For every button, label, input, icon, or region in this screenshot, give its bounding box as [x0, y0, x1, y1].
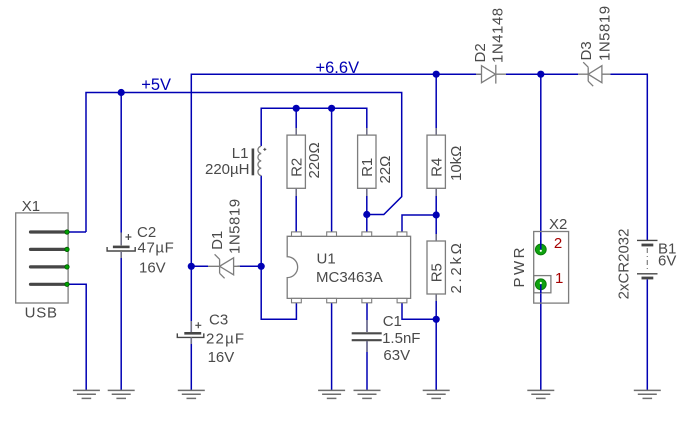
wire U1 pin3 bottom to C1 [366, 303, 368, 332]
pin 1 [535, 279, 546, 290]
op-amp U1 MC3463A [287, 232, 410, 303]
junction R1 bottom [363, 211, 370, 218]
svg-text:X1: X1 [22, 198, 40, 215]
svg-text:10kΩ: 10kΩ [448, 146, 465, 181]
ground (C2) [108, 390, 135, 398]
wire +5V rail from USB pin1 riser to corner at x=401.7 [86, 93, 402, 233]
battery B1 2xCR2032 [616, 229, 677, 300]
resistor R1 [358, 128, 394, 196]
junction D1 anode node [258, 263, 265, 270]
junction +5V/C2 [118, 89, 125, 96]
svg-text:2.2kΩ: 2.2kΩ [448, 240, 465, 293]
wire C1 to ground [366, 341, 368, 390]
wire L1/R2/R1 top rail [261, 108, 367, 232]
svg-text:1N4148: 1N4148 [490, 7, 507, 63]
wire +6.6V rail with left drop to D1 node [191, 74, 647, 266]
ground (R5) [423, 390, 450, 398]
resistor R5 [427, 234, 465, 301]
svg-text:PWR: PWR [511, 245, 528, 288]
svg-text:D3: D3 [578, 41, 595, 60]
diode D1 1N5819 [208, 198, 244, 278]
ground (U1 pin2) [318, 390, 345, 398]
wire D1 node left: C3 branch [190, 266, 192, 390]
inductor L1 [205, 145, 266, 178]
junction rail/R2 [293, 105, 300, 112]
svg-text:R4: R4 [428, 158, 445, 177]
wire USB pin1 to riser [67, 231, 86, 233]
svg-text:1N5819: 1N5819 [227, 198, 244, 254]
capacitor C1 [352, 313, 421, 364]
junction R5 bottom [433, 316, 440, 323]
ground (B1) [634, 390, 661, 398]
svg-text:C1: C1 [383, 313, 402, 330]
svg-text:220µH: 220µH [205, 161, 250, 178]
connector X1 USB [16, 198, 70, 322]
junction R4 bottom / R5 top [433, 211, 440, 218]
svg-text:USB: USB [25, 305, 58, 322]
svg-text:2: 2 [554, 235, 562, 252]
pin stubs bottom [292, 298, 407, 302]
diode D3 1N5819 [578, 5, 614, 86]
svg-text:R2: R2 [289, 158, 306, 177]
svg-text:X2: X2 [549, 216, 567, 233]
svg-text:+6.6V: +6.6V [316, 59, 360, 77]
wire X2 pin2 feed [540, 74, 542, 249]
capacitor C3 [177, 312, 245, 367]
svg-text:D2: D2 [472, 43, 489, 62]
svg-text:D1: D1 [209, 231, 226, 250]
wire D1 cathode lead [191, 265, 208, 267]
diode D2 1N4148 [472, 7, 507, 83]
svg-text:1.5nF: 1.5nF [382, 330, 420, 347]
junction D1 cathode node [188, 263, 195, 270]
wire C2 to ground [120, 252, 122, 391]
wire C2 branch [120, 93, 122, 246]
svg-text:22µF: 22µF [206, 331, 245, 348]
wire U1 pin4 top to R4/R5 node [402, 188, 436, 241]
svg-text:220Ω: 220Ω [306, 142, 323, 178]
wire X2 pin1 to ground [540, 284, 542, 390]
connector X2 PWR [511, 216, 569, 303]
capacitor C2 [107, 224, 174, 276]
svg-text:16V: 16V [208, 349, 235, 366]
svg-text:L1: L1 [232, 145, 249, 162]
svg-text:R1: R1 [359, 158, 376, 177]
wire R2 bottom to U1 pin1 [295, 188, 297, 232]
wire U1 pin2 bottom to ground [331, 303, 333, 390]
wire R4 top stub to +6.6V rail [435, 74, 437, 135]
svg-text:47µF: 47µF [138, 239, 175, 256]
svg-text:2xCR2032: 2xCR2032 [616, 229, 633, 300]
wire USB pin4 to ground [67, 284, 86, 390]
svg-text:U1: U1 [317, 251, 336, 268]
svg-text:6V: 6V [658, 253, 676, 270]
junction +6.6V/R4 top [433, 71, 440, 78]
ground (C1) [354, 390, 381, 398]
wire D1 anode to L1 bottom node [237, 176, 296, 320]
wire R1 bottom to U1 pin [366, 188, 368, 232]
pin 2 [535, 244, 546, 255]
svg-text:+5V: +5V [141, 76, 171, 94]
svg-text:22Ω: 22Ω [377, 156, 394, 184]
resistor R2 [287, 128, 323, 196]
junction rail/U1 pin [328, 105, 335, 112]
wire D3 anode to battery [646, 280, 648, 391]
svg-text:16V: 16V [139, 259, 166, 276]
pin stubs top [292, 232, 407, 236]
svg-text:63V: 63V [383, 347, 410, 364]
svg-text:MC3463A: MC3463A [316, 269, 383, 286]
wire U1 pin4 bottom to R5 bottom node [402, 294, 436, 390]
svg-text:R5: R5 [428, 263, 445, 282]
ground (X2) [527, 390, 554, 398]
svg-text:1N5819: 1N5819 [597, 5, 614, 61]
junction +6.6V/X2 branch [537, 71, 544, 78]
ground (USB) [73, 390, 100, 398]
svg-text:1: 1 [555, 270, 563, 287]
svg-text:C3: C3 [209, 312, 228, 329]
ground (C3) [178, 390, 205, 398]
resistor R4 [427, 128, 465, 196]
